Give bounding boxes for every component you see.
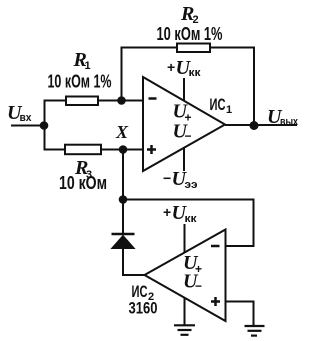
op-amp U2 (IC2) triangle bbox=[145, 230, 226, 322]
wire node X down to node B bbox=[122, 150, 124, 200]
node +Ukk label (IC2 supply) bbox=[163, 202, 197, 225]
svg-text:вых: вых bbox=[280, 116, 299, 128]
wire node B down to diode bbox=[122, 200, 124, 234]
svg-text:+: + bbox=[163, 204, 171, 220]
svg-text:−: − bbox=[195, 279, 202, 293]
resistor R2 bbox=[157, 3, 223, 52]
node Uvyh label bbox=[267, 106, 299, 128]
svg-text:вх: вх bbox=[20, 112, 33, 124]
op-amp U2 label U- bbox=[183, 271, 202, 294]
wire IC1 positive supply bbox=[183, 78, 185, 101]
wire R3 right to node X and op-amp plus input bbox=[100, 149, 143, 151]
op-amp U1 designator IC1 bbox=[210, 95, 233, 116]
svg-text:10 кОм 1%: 10 кОм 1% bbox=[157, 24, 223, 44]
wire IC1 negative supply bbox=[183, 148, 185, 172]
op-amp U2 plus input sign bbox=[211, 297, 220, 306]
resistor R3 bbox=[59, 145, 107, 193]
wire R2 right down to output node bbox=[210, 48, 254, 126]
svg-text:X: X bbox=[115, 122, 129, 142]
op-amp U1 minus input sign bbox=[149, 97, 157, 100]
junction dot node B (feedback) bbox=[119, 195, 128, 204]
wire input Uvx bbox=[11, 125, 44, 127]
op-amp U1 label U- bbox=[173, 121, 192, 144]
ground (IC2 plus input) bbox=[245, 326, 265, 336]
ground (IC2 negative supply) bbox=[174, 325, 195, 335]
op-amp U2 label U+ bbox=[183, 252, 202, 276]
wire branch up to R1 bbox=[45, 101, 67, 126]
svg-text:10 кОм: 10 кОм bbox=[59, 173, 107, 193]
wire feedback node B to IC2 minus input bbox=[123, 200, 254, 247]
wire output Uvyh bbox=[225, 124, 297, 126]
resistor R1 bbox=[48, 49, 112, 105]
svg-text:1: 1 bbox=[226, 104, 232, 116]
svg-text:1: 1 bbox=[85, 60, 91, 72]
svg-text:−: − bbox=[185, 129, 192, 143]
node Uvx label bbox=[7, 102, 32, 124]
svg-text:−: − bbox=[163, 170, 171, 186]
op-amp U1 label U+ bbox=[173, 101, 192, 125]
svg-text:10 кОм 1%: 10 кОм 1% bbox=[48, 72, 112, 92]
svg-text:3160: 3160 bbox=[129, 299, 158, 318]
wire branch down to R3 bbox=[45, 126, 67, 150]
junction dot node X bbox=[119, 145, 128, 154]
wire IC2 positive supply bbox=[184, 224, 186, 252]
node +Ukk label (IC1 supply) bbox=[167, 57, 201, 79]
op-amp U2 designator IC2 bbox=[132, 282, 155, 303]
junction dot input bbox=[40, 121, 49, 130]
wire IC2 plus input to ground bbox=[226, 302, 254, 327]
junction dot node A (R1/R2) bbox=[117, 96, 126, 105]
svg-text:ИС: ИС bbox=[210, 95, 226, 114]
svg-text:кк: кк bbox=[189, 67, 202, 79]
wire diode to IC2 output bbox=[123, 249, 145, 276]
wire R1 right to op-amp minus input bbox=[98, 100, 143, 102]
op-amp U2 minus input sign bbox=[211, 245, 220, 248]
diode VD1 bbox=[112, 234, 135, 249]
junction dot output bbox=[250, 121, 259, 130]
op-amp U1 (IC1) triangle bbox=[143, 77, 225, 171]
wire IC2 negative supply to ground bbox=[184, 298, 186, 326]
svg-text:кк: кк bbox=[185, 213, 198, 225]
svg-text:ээ: ээ bbox=[185, 179, 198, 191]
wire node A up to R2 left bbox=[122, 48, 178, 101]
op-amp U1 plus input sign bbox=[147, 145, 156, 154]
svg-text:+: + bbox=[167, 59, 175, 75]
node -Uee label (IC1 supply) bbox=[163, 168, 198, 191]
